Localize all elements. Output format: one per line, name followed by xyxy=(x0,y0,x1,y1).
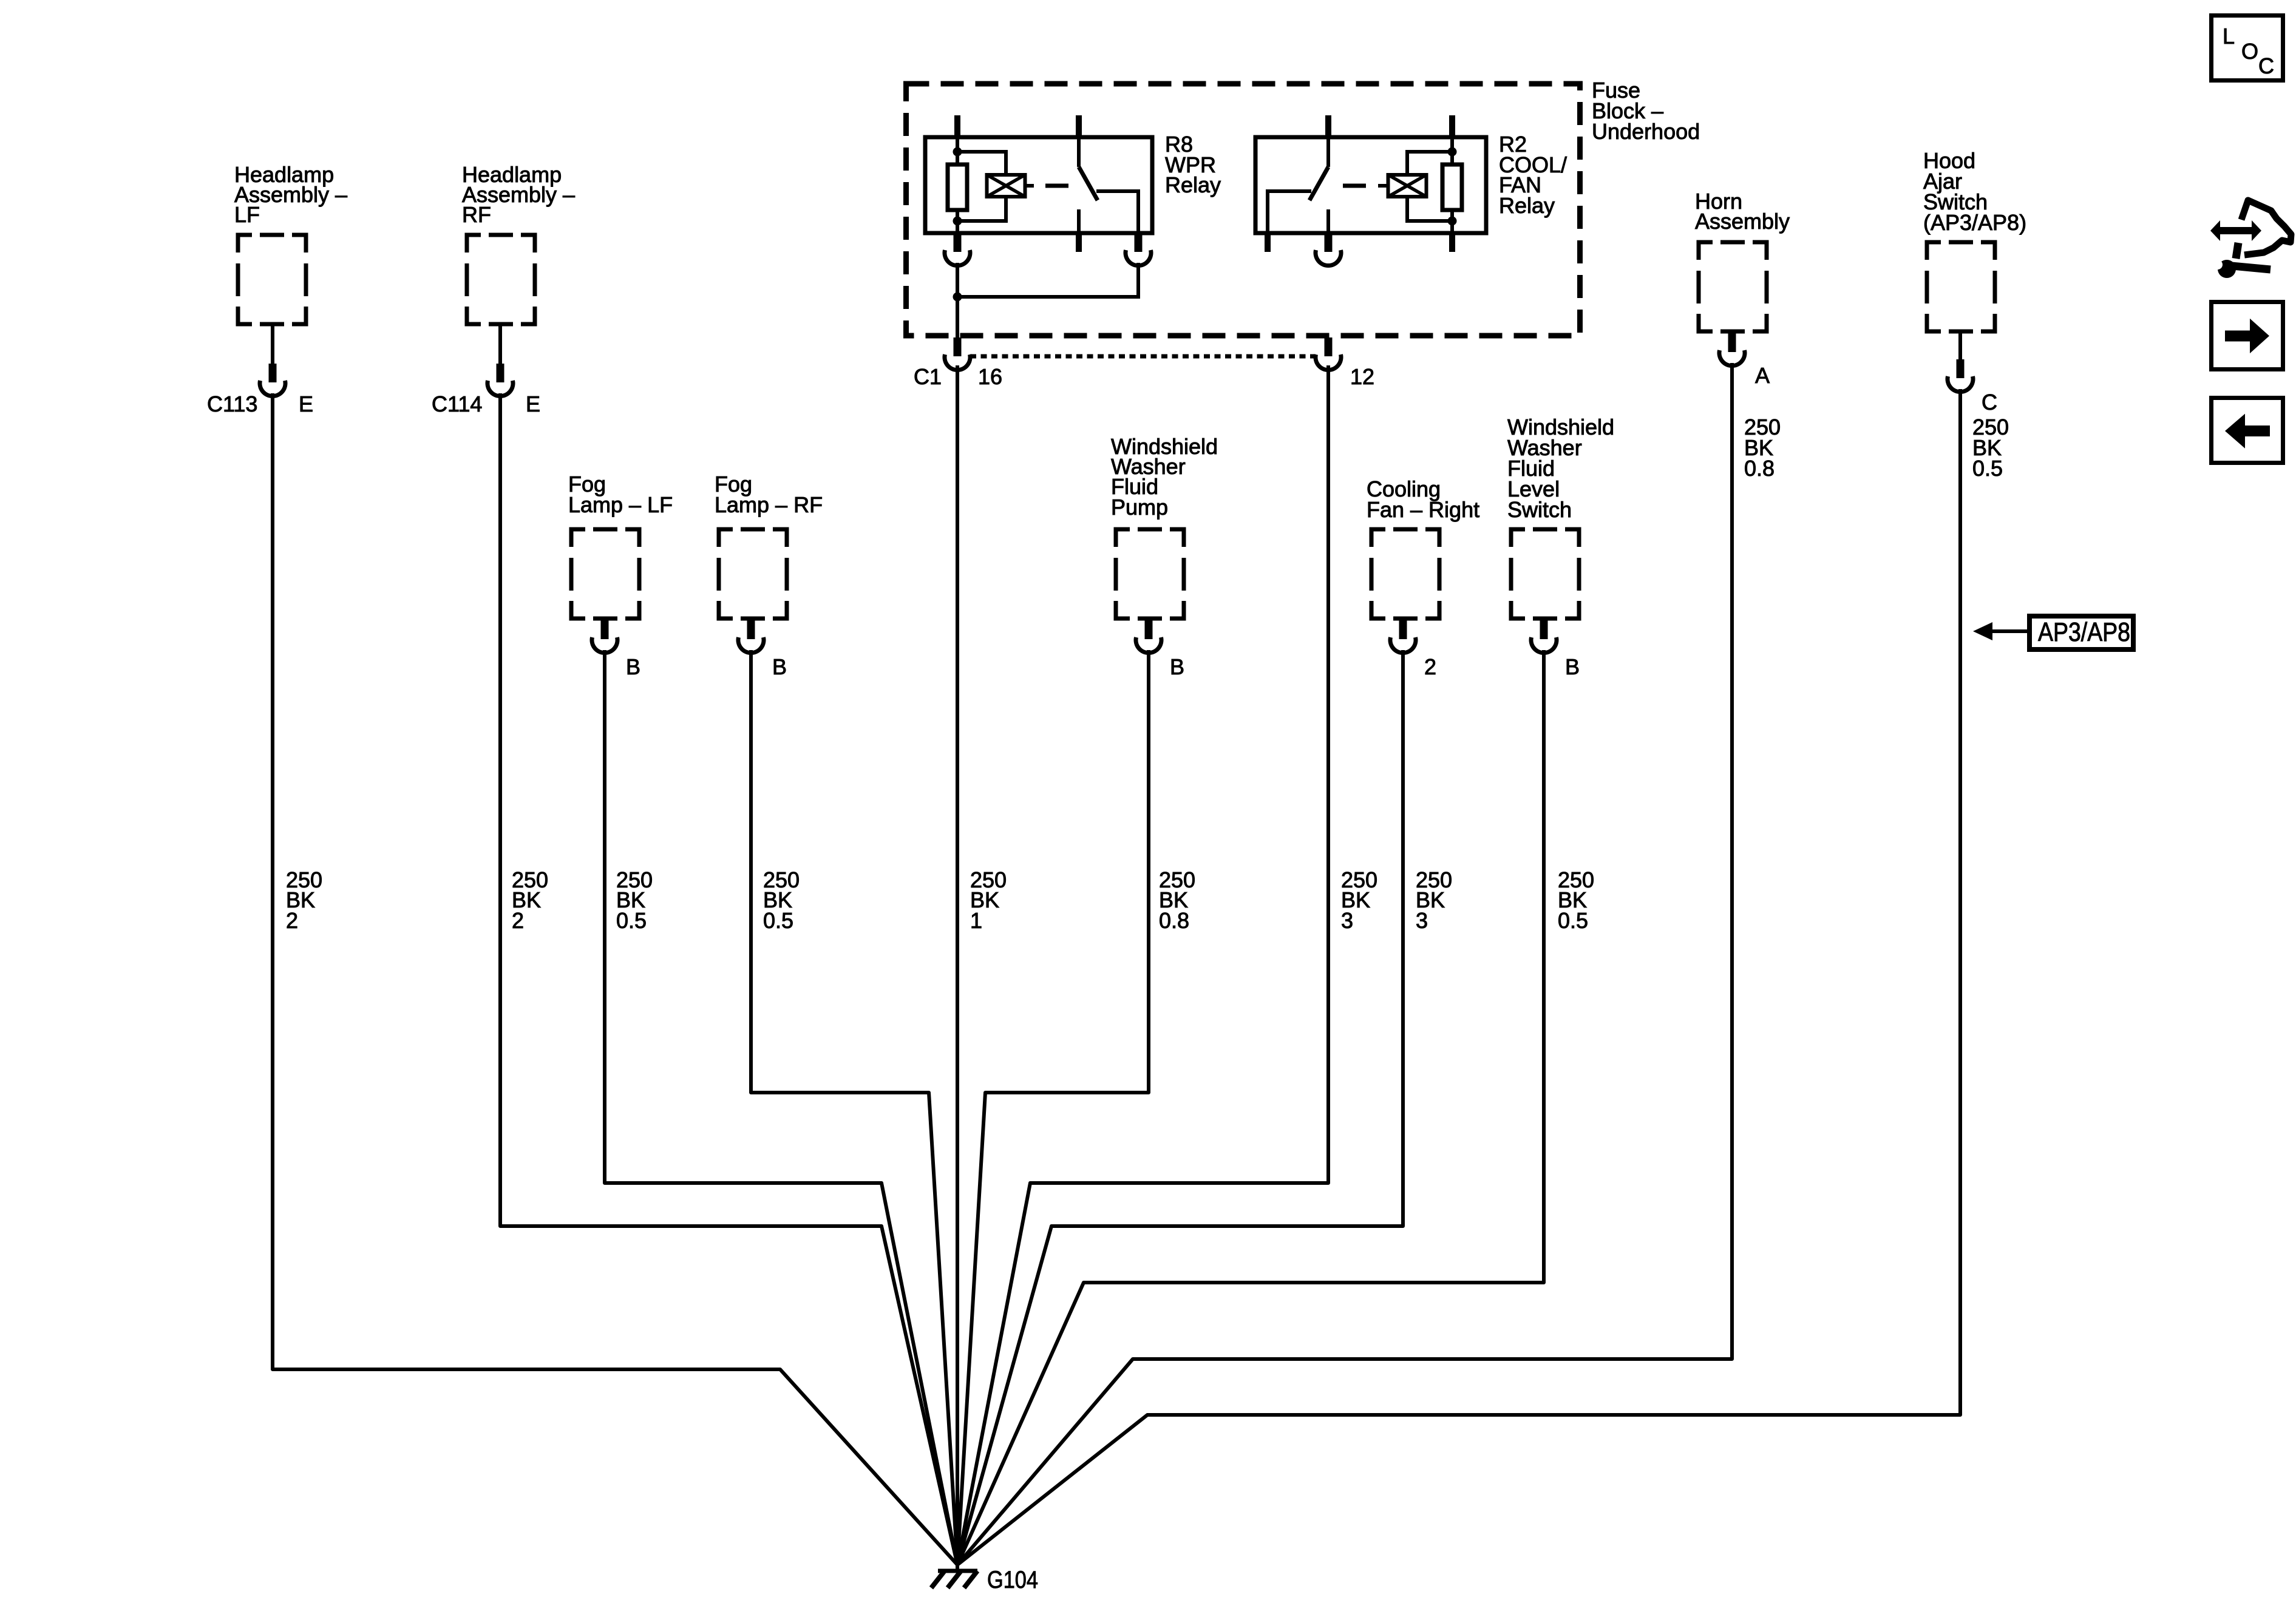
wire fuse block 12 to ground 250 BK 3 xyxy=(957,365,1328,1565)
svg-text:3: 3 xyxy=(1341,908,1353,933)
svg-text:0.8: 0.8 xyxy=(1159,908,1189,933)
wire fog lamp LF ground 250 BK 0.5 xyxy=(605,650,957,1565)
svg-text:B: B xyxy=(1170,654,1184,679)
wire headlamp LF ground 250 BK 2 xyxy=(273,393,957,1565)
svg-text:RF: RF xyxy=(462,202,491,227)
back arrow xyxy=(2225,414,2270,449)
svg-text:C: C xyxy=(2258,53,2274,78)
svg-text:Assembly: Assembly xyxy=(1695,209,1790,234)
fuse block underhood dashed border xyxy=(906,84,1580,336)
R8 pin 85 top bar xyxy=(954,115,960,137)
svg-text:B: B xyxy=(772,654,787,679)
R2 pin top bar right xyxy=(1449,115,1455,137)
svg-text:0.8: 0.8 xyxy=(1744,456,1775,481)
headlamp assembly RF stub wire xyxy=(498,324,502,365)
connector horn pin A xyxy=(1719,333,1745,366)
svg-text:2: 2 xyxy=(286,908,298,933)
R2 coil bracket xyxy=(1407,152,1452,221)
R8 switch fixed contact xyxy=(1077,137,1081,167)
relay R2 body xyxy=(1255,137,1486,233)
R8 coil line xyxy=(956,137,959,233)
svg-text:0.5: 0.5 xyxy=(616,908,647,933)
AP3/AP8 box xyxy=(2029,616,2133,649)
connector C1 dotted line xyxy=(970,354,1316,359)
windshield washer fluid level switch box xyxy=(1511,529,1579,619)
connector C1 pin 16 xyxy=(945,337,970,370)
svg-text:E: E xyxy=(526,392,540,416)
cooling fan right box xyxy=(1371,529,1439,619)
connector hood ajar pin C xyxy=(1948,359,1973,392)
svg-text:0.5: 0.5 xyxy=(1972,456,2003,481)
svg-text:G104: G104 xyxy=(987,1567,1038,1593)
R8 switch output path xyxy=(1096,191,1138,233)
headlamp assembly LF stub wire xyxy=(271,324,274,365)
connector fan pin 2 xyxy=(1390,620,1416,653)
R8 switch bottom connector xyxy=(1126,233,1151,266)
wire washer pump ground 250 BK 0.8 xyxy=(957,650,1149,1565)
connector pin 12 xyxy=(1316,337,1341,370)
R2 coil line xyxy=(1450,137,1454,233)
svg-text:C113: C113 xyxy=(207,392,257,416)
svg-text:LF: LF xyxy=(234,202,260,227)
hood ajar stub wire xyxy=(1958,331,1962,361)
svg-text:2: 2 xyxy=(1424,654,1436,679)
R8 mechanical dash link xyxy=(1045,184,1068,188)
svg-text:C1: C1 xyxy=(914,364,942,389)
R2 switch lower stub xyxy=(1326,209,1330,233)
svg-text:Switch: Switch xyxy=(1507,497,1572,522)
svg-text:AP3/AP8: AP3/AP8 xyxy=(2038,617,2130,647)
svg-text:Lamp – LF: Lamp – LF xyxy=(568,492,673,517)
svg-text:Relay: Relay xyxy=(1499,193,1555,218)
wire ground trunk xyxy=(956,1565,959,1571)
wire headlamp RF ground 250 BK 2 xyxy=(500,393,957,1565)
R8 coil resistor xyxy=(948,164,967,210)
svg-text:1: 1 xyxy=(970,908,982,933)
R2 bottom stub bar left xyxy=(1265,233,1271,252)
svg-text:C: C xyxy=(1982,390,1997,415)
svg-text:Lamp – RF: Lamp – RF xyxy=(715,492,823,517)
back arrow box xyxy=(2212,398,2283,463)
ground tooth 1 xyxy=(931,1571,945,1588)
R8 coil bracket xyxy=(957,152,1006,221)
component-view hand outline xyxy=(2241,200,2291,255)
svg-text:Pump: Pump xyxy=(1111,495,1168,520)
fog lamp RF box xyxy=(719,529,787,619)
R8 switch lower stub xyxy=(1077,209,1081,233)
R8 coil crossed box xyxy=(987,175,1025,197)
svg-text:16: 16 xyxy=(978,364,1002,389)
R8 internal junction dot xyxy=(953,293,962,302)
svg-text:L: L xyxy=(2223,24,2235,49)
wire fuse block C1-16 to ground 250 BK 1 xyxy=(956,365,959,1565)
R8 pin 86 bottom connector xyxy=(945,233,970,266)
R2 junction dot bottom xyxy=(1448,217,1457,226)
R2 coil stub xyxy=(1378,184,1388,188)
R8 pin 87 bottom stub bar xyxy=(1076,233,1082,252)
component-view wrench xyxy=(2218,260,2236,278)
wire fog lamp RF ground 250 BK 0.5 xyxy=(751,650,957,1565)
horn assembly box xyxy=(1699,242,1767,331)
R2 switch blade xyxy=(1309,167,1328,200)
ground tooth 2 xyxy=(948,1571,961,1588)
R8 internal ground wire xyxy=(957,263,1138,338)
R2 switch fixed contact xyxy=(1326,137,1330,167)
fog lamp LF box xyxy=(571,529,639,619)
connector fog RF pin B xyxy=(738,620,764,653)
R2 pin bottom connector xyxy=(1316,233,1341,266)
R8 junction dot top xyxy=(953,147,962,157)
connector C114 pin E xyxy=(487,364,513,396)
svg-text:B: B xyxy=(626,654,640,679)
svg-text:A: A xyxy=(1755,363,1770,388)
forward arrow xyxy=(2225,319,2269,353)
forward arrow box xyxy=(2212,302,2283,370)
R2 switch output path xyxy=(1268,191,1311,233)
R2 mechanical dash link xyxy=(1343,184,1366,188)
AP3/AP8 arrow head xyxy=(1973,622,1992,640)
connector pump pin B xyxy=(1136,620,1161,653)
R2 coil resistor xyxy=(1442,164,1462,210)
wire hood ajar switch ground 250 BK 0.5 xyxy=(957,389,1960,1565)
relay R8 body xyxy=(925,137,1152,233)
connector fog LF pin B xyxy=(592,620,617,653)
svg-text:Relay: Relay xyxy=(1165,172,1221,197)
connector C113 pin E xyxy=(260,364,285,396)
svg-text:3: 3 xyxy=(1416,908,1428,933)
R2 junction dot top xyxy=(1448,147,1457,157)
component-view double arrow xyxy=(2210,220,2261,241)
svg-text:12: 12 xyxy=(1350,364,1374,389)
svg-text:Fan – Right: Fan – Right xyxy=(1367,497,1479,522)
svg-text:E: E xyxy=(299,392,313,416)
svg-text:B: B xyxy=(1565,654,1580,679)
wire cooling fan ground 250 BK 3 xyxy=(957,650,1403,1565)
AP3/AP8 arrow shaft xyxy=(1992,629,2027,633)
ground bar xyxy=(938,1569,977,1573)
R2 bottom stub bar right xyxy=(1449,233,1455,252)
ground tooth 3 xyxy=(964,1571,977,1588)
component-view hand cuff xyxy=(2236,243,2238,259)
svg-text:0.5: 0.5 xyxy=(763,908,793,933)
windshield washer fluid pump box xyxy=(1116,529,1184,619)
R2 coil crossed box xyxy=(1388,175,1427,197)
svg-text:C114: C114 xyxy=(432,392,482,416)
headlamp assembly LF box xyxy=(238,235,306,324)
R8 pin 30 top bar xyxy=(1076,115,1082,137)
R8 switch blade xyxy=(1079,167,1098,200)
wire horn ground 250 BK 0.8 xyxy=(957,363,1732,1565)
hood ajar switch box xyxy=(1927,242,1995,331)
headlamp assembly RF box xyxy=(467,235,535,324)
svg-text:2: 2 xyxy=(512,908,524,933)
R2 pin top bar left xyxy=(1325,115,1331,137)
svg-text:(AP3/AP8): (AP3/AP8) xyxy=(1923,210,2026,235)
R8 coil stub xyxy=(1025,184,1034,188)
svg-text:0.5: 0.5 xyxy=(1558,908,1588,933)
wire washer fluid level switch ground 250 BK 0.5 xyxy=(957,650,1544,1565)
svg-text:O: O xyxy=(2241,39,2258,64)
LOC box xyxy=(2212,16,2283,81)
connector level switch pin B xyxy=(1531,620,1557,653)
R8 junction dot bottom xyxy=(953,217,962,226)
svg-text:Underhood: Underhood xyxy=(1592,119,1700,144)
